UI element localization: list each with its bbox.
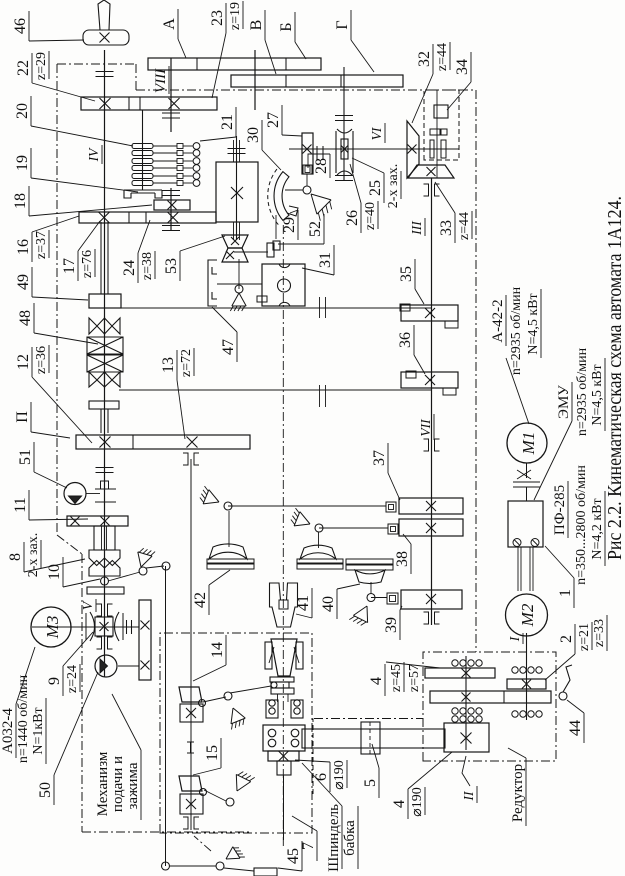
- svg-text:4: 4: [391, 800, 408, 808]
- worm 25 carrier shaft: [343, 67, 345, 180]
- feed-clamp mechanism box (dash-dot): [160, 633, 312, 833]
- pulley shaft top: [254, 50, 256, 110]
- bevel gear 32: [407, 121, 419, 178]
- gear 36 bar: [401, 372, 458, 388]
- belt tensioner: [361, 722, 380, 754]
- gear bar 12/13 row: [76, 435, 250, 449]
- motor M1: [507, 423, 547, 463]
- svg-text:z=76: z=76: [80, 250, 95, 278]
- cam follower 42 arc: [209, 544, 247, 559]
- rod mid: [318, 532, 320, 548]
- bevel 53 output shaft: [234, 251, 268, 253]
- coupling 34: [434, 105, 448, 118]
- tick pairs on feed rods: [319, 297, 321, 318]
- svg-text:N=1кВт: N=1кВт: [31, 707, 46, 754]
- svg-text:27: 27: [265, 112, 282, 128]
- cone pulley pair upper 48: [89, 318, 120, 334]
- clutch push pins: [153, 145, 177, 147]
- spindle nose: [277, 761, 291, 775]
- link 28 chain: [306, 174, 308, 186]
- svg-text:z=37: z=37: [34, 231, 49, 259]
- svg-text:N=4,5 кВт: N=4,5 кВт: [590, 364, 605, 425]
- spindle shaft lines: [277, 694, 279, 702]
- svg-text:n=1440 об/мин: n=1440 об/мин: [16, 674, 31, 763]
- svg-text:II: II: [461, 790, 476, 801]
- svg-text:бабка: бабка: [342, 820, 358, 856]
- amplifier PF-285 box: [508, 501, 543, 547]
- svg-text:П: П: [14, 411, 31, 423]
- bevel gear pair 53: [222, 235, 248, 248]
- flat belt 5: [302, 729, 445, 748]
- pivot under bevel53: [232, 293, 246, 306]
- cam lever 14: [179, 687, 202, 702]
- cam follower 42 rails: [207, 564, 254, 569]
- reducer bearing circles d: [452, 708, 458, 714]
- svg-text:10: 10: [46, 564, 63, 580]
- bearing on rod lower: [183, 817, 188, 829]
- svg-text:30: 30: [245, 127, 262, 143]
- bearing on rod upper: [183, 453, 188, 465]
- clutch springs (circles): [193, 143, 200, 150]
- svg-text:47: 47: [220, 339, 237, 355]
- svg-text:А-42-2: А-42-2: [490, 299, 506, 342]
- collet chuck: [265, 642, 272, 669]
- shifter fork 19: [124, 190, 162, 198]
- svg-text:2-х зах.: 2-х зах.: [386, 164, 401, 208]
- camshaft worm gears block: [139, 600, 151, 680]
- machine housing (dash-dot frame): [57, 64, 476, 832]
- slider bracket 37: [386, 502, 396, 512]
- svg-text:48: 48: [17, 310, 34, 326]
- svg-text:В: В: [248, 20, 265, 31]
- ticks shaft VI: [316, 146, 318, 160]
- svg-text:42: 42: [192, 592, 209, 608]
- gear 18 small bar: [154, 200, 190, 210]
- svg-text:VIII: VIII: [153, 68, 169, 93]
- cam 40 arc: [355, 570, 385, 584]
- reducer bearing circles a: [452, 660, 458, 666]
- shaft IV main line: [104, 50, 106, 677]
- svg-text:z=40: z=40: [363, 202, 378, 230]
- gear z=21 on shaft I: [507, 679, 546, 689]
- svg-text:ЭМУ: ЭМУ: [556, 385, 572, 419]
- svg-text:2: 2: [558, 635, 575, 643]
- shaft I: [526, 633, 528, 720]
- svg-text:Б: Б: [278, 22, 295, 31]
- svg-text:28: 28: [313, 158, 330, 174]
- coupling 49: [89, 294, 121, 308]
- svg-text:17: 17: [61, 258, 78, 274]
- motor M3 axis: [32, 626, 139, 628]
- pump 50 circle: [95, 655, 117, 677]
- svg-text:z=57: z=57: [407, 664, 422, 692]
- shaft III tie rod upper: [190, 459, 192, 830]
- svg-text:z=24: z=24: [65, 665, 80, 693]
- pivot rod39: [367, 594, 375, 602]
- bearing ticks shaft VIII: [162, 195, 180, 197]
- shaft VII: [431, 178, 433, 625]
- link circle on shaft: [101, 577, 109, 585]
- svg-text:37: 37: [371, 450, 388, 466]
- svg-text:n=2935 об/мин: n=2935 об/мин: [509, 286, 524, 375]
- bearing ticks on shaft IV top: [96, 76, 114, 78]
- motor M3: [31, 607, 71, 647]
- svg-text:25: 25: [367, 180, 384, 196]
- svg-text:z=38: z=38: [140, 252, 155, 280]
- bell crank 14 to collet: [203, 697, 226, 702]
- svg-text:Редуктор: Редуктор: [510, 764, 526, 822]
- hand crank 44: [559, 692, 567, 700]
- gear 39 bar: [401, 590, 462, 609]
- gear bar z=57/z=33: [430, 691, 551, 703]
- gear bar 16/17/24 row: [79, 212, 216, 223]
- cam follower mid arc: [300, 545, 336, 559]
- svg-text:n=2935 об/мин: n=2935 об/мин: [575, 347, 590, 436]
- box 31: [262, 264, 305, 306]
- layshaft II: [465, 656, 467, 750]
- bottom linkage: [162, 862, 170, 870]
- bevel gear 33: [408, 165, 454, 178]
- svg-text:13: 13: [160, 357, 177, 373]
- svg-text:z=45: z=45: [389, 664, 404, 692]
- svg-text:⌀190: ⌀190: [332, 760, 347, 789]
- clutch sleeve shaft: [142, 110, 144, 190]
- bearing V shaft: [97, 604, 102, 616]
- svg-text:52: 52: [307, 221, 324, 237]
- svg-text:15: 15: [204, 745, 221, 761]
- svg-text:z=72: z=72: [179, 349, 194, 377]
- cam follower rod 39: [371, 597, 387, 599]
- svg-text:Г: Г: [334, 20, 351, 29]
- gear z=45 bar: [425, 668, 495, 678]
- pivot rod37: [224, 502, 232, 510]
- svg-text:21: 21: [219, 114, 236, 130]
- pump 50 drive line: [118, 665, 139, 667]
- spring seat on rod: [187, 742, 194, 753]
- clutch stem: [142, 138, 144, 143]
- svg-text:III: III: [409, 220, 424, 236]
- ticks M3 axis: [126, 620, 128, 634]
- svg-text:46: 46: [12, 18, 29, 34]
- svg-text:зажима: зажима: [125, 762, 141, 809]
- svg-text:VII: VII: [418, 418, 433, 437]
- spline rect shaft IV: [101, 481, 109, 489]
- svg-text:подачи и: подачи и: [110, 756, 126, 812]
- svg-text:⌀190: ⌀190: [410, 787, 425, 816]
- svg-text:29: 29: [281, 217, 298, 233]
- variator chevron belts: [87, 337, 123, 354]
- svg-text:VI: VI: [369, 126, 384, 140]
- svg-text:z=19: z=19: [228, 2, 243, 30]
- svg-text:26: 26: [344, 210, 361, 226]
- collet collars: [270, 677, 294, 682]
- svg-text:40: 40: [320, 596, 337, 612]
- bearing shaft VII mid: [424, 439, 429, 451]
- svg-text:IV: IV: [86, 147, 101, 162]
- camshaft axis dash-dot: [282, 225, 284, 846]
- svg-text:32: 32: [416, 51, 433, 67]
- svg-text:Рис 2.2. Кинематическая схема: Рис 2.2. Кинематическая схема автомата 1…: [604, 196, 625, 560]
- pivot 28: [311, 194, 331, 214]
- flat-belt pulley bar V-G: [231, 75, 403, 87]
- svg-text:24: 24: [121, 260, 138, 276]
- cam 40 rails: [346, 565, 393, 570]
- gear bar 11: [67, 516, 128, 526]
- feed rod 1 (vertical): [121, 307, 431, 309]
- coupling M1: [513, 486, 540, 488]
- reducer bearing circles b: [512, 667, 518, 673]
- motor pulley d190 (4): [444, 723, 489, 752]
- svg-text:z=29: z=29: [34, 52, 49, 80]
- svg-text:22: 22: [15, 60, 32, 76]
- bearing shaft VII low: [424, 612, 429, 624]
- crank handle 46: [83, 30, 129, 45]
- shaft VI extension in box34: [424, 148, 459, 150]
- svg-text:14: 14: [209, 642, 226, 658]
- flat-belt pulley bar A-B: [148, 58, 321, 70]
- gear 35 bar: [401, 305, 458, 321]
- sector cam 29/30: [274, 172, 289, 221]
- svg-text:50: 50: [37, 782, 54, 798]
- geneva box 10: [94, 526, 115, 550]
- gear 34 housing (dashed box): [424, 90, 459, 160]
- gear 37 bar: [399, 498, 463, 514]
- svg-text:44: 44: [567, 720, 584, 736]
- worm wheel 25: [337, 129, 352, 175]
- slider bracket 38: [388, 524, 398, 534]
- rod 40: [370, 582, 372, 594]
- friction clutch discs 20: [132, 144, 153, 149]
- worm 9 on M3 axis: [90, 612, 95, 641]
- gear 38 bar: [399, 519, 463, 536]
- cam follower rod 38: [319, 527, 388, 529]
- ticks shaft IV mid: [95, 501, 116, 503]
- spindle bearing blocks front: [266, 700, 278, 718]
- slider bracket 39: [387, 593, 398, 604]
- svg-text:1: 1: [557, 589, 574, 597]
- svg-text:М3: М3: [43, 616, 62, 640]
- svg-text:19: 19: [14, 155, 31, 171]
- svg-text:16: 16: [15, 239, 32, 255]
- svg-text:А: А: [161, 18, 178, 30]
- cam drum box 24: [216, 162, 258, 222]
- svg-text:z=21: z=21: [577, 623, 592, 651]
- bell crank to rod: [108, 572, 140, 581]
- collar on shaft IV: [89, 401, 119, 409]
- ticks worm25 shaft: [335, 120, 353, 122]
- pump 51: [64, 483, 86, 505]
- M2 shaft to reducer: [526, 633, 528, 636]
- svg-text:4: 4: [368, 677, 385, 685]
- spindle bearing block main: [263, 725, 305, 751]
- svg-text:11: 11: [12, 497, 29, 512]
- gear z=29 / z=19 bar: [81, 97, 217, 110]
- svg-text:n=350...2800 об/мин: n=350...2800 об/мин: [574, 465, 589, 585]
- svg-text:41: 41: [295, 595, 312, 611]
- cam follower mid rails: [297, 564, 343, 569]
- collar 8: [87, 587, 124, 594]
- link arc29 to slider: [275, 215, 277, 239]
- spindle pulley d190 (6): [268, 751, 299, 761]
- svg-text:33: 33: [438, 220, 455, 236]
- svg-text:35: 35: [398, 266, 415, 282]
- shaft VI (vertical): [289, 148, 455, 150]
- svg-text:23: 23: [209, 10, 226, 26]
- svg-text:34: 34: [454, 59, 471, 75]
- svg-text:53: 53: [163, 258, 180, 274]
- svg-text:39: 39: [383, 617, 400, 633]
- svg-text:Шпиндель: Шпиндель: [326, 804, 342, 872]
- reducer bearing circles c: [512, 711, 518, 717]
- svg-text:z=36: z=36: [34, 346, 49, 374]
- svg-text:7: 7: [300, 842, 317, 850]
- cone pulley pair lower 48: [89, 372, 120, 387]
- svg-text:38: 38: [394, 551, 411, 567]
- feed rod 2 (vertical): [119, 389, 431, 391]
- bell crank 15: [204, 790, 226, 801]
- svg-text:М2: М2: [518, 603, 537, 627]
- motor M2: [506, 594, 548, 636]
- shaft IV double-wall segments: [100, 222, 102, 294]
- gripper claw 41: [270, 583, 298, 627]
- cylinder 27 piston: [303, 165, 312, 174]
- gear 34 sliding pair: [430, 129, 440, 135]
- cam follower rod 37: [228, 505, 386, 507]
- svg-text:ПФ-285: ПФ-285: [552, 485, 568, 535]
- svg-text:z=44: z=44: [457, 212, 472, 240]
- svg-text:N=4,5 кВт: N=4,5 кВт: [526, 293, 541, 354]
- svg-text:20: 20: [14, 103, 31, 119]
- svg-text:5: 5: [362, 779, 379, 787]
- svg-text:2-х зах.: 2-х зах.: [26, 533, 41, 577]
- svg-text:z=44: z=44: [435, 43, 450, 71]
- shaft VIII: [170, 58, 172, 132]
- wires PF to M2: [517, 547, 519, 591]
- svg-text:6: 6: [313, 773, 330, 781]
- svg-text:А032-4: А032-4: [0, 708, 16, 754]
- svg-text:36: 36: [397, 332, 414, 348]
- svg-text:Механизм: Механизм: [95, 751, 111, 816]
- tie rod (clamp): [165, 566, 167, 866]
- svg-text:z=33: z=33: [592, 619, 607, 647]
- ticks at cam box: [228, 153, 246, 155]
- link from bevel 53: [217, 283, 262, 285]
- svg-text:8: 8: [7, 553, 24, 561]
- reducer box (dash-dot): [423, 652, 556, 761]
- slider 52 blocks: [267, 243, 274, 257]
- svg-text:51: 51: [17, 449, 34, 465]
- safety cone clutch 8: [89, 550, 120, 566]
- svg-text:М1: М1: [519, 432, 538, 456]
- rod 42: [228, 511, 230, 547]
- bearing shaft VII top: [424, 184, 429, 196]
- spindle headstock boundary (dash-dot): [314, 718, 423, 720]
- pivot rod38: [315, 524, 323, 532]
- cam box shaft: [236, 136, 238, 240]
- cylinder 27: [302, 133, 313, 174]
- svg-text:31: 31: [317, 252, 334, 268]
- svg-text:49: 49: [15, 274, 32, 290]
- frame 47: [208, 260, 217, 306]
- svg-text:18: 18: [12, 193, 29, 209]
- svg-text:12: 12: [15, 354, 32, 370]
- cam lever 15: [179, 776, 202, 791]
- svg-text:N=4,2 кВт: N=4,2 кВт: [590, 498, 605, 559]
- PF-285 terminals: [513, 539, 521, 547]
- svg-text:9: 9: [46, 677, 63, 685]
